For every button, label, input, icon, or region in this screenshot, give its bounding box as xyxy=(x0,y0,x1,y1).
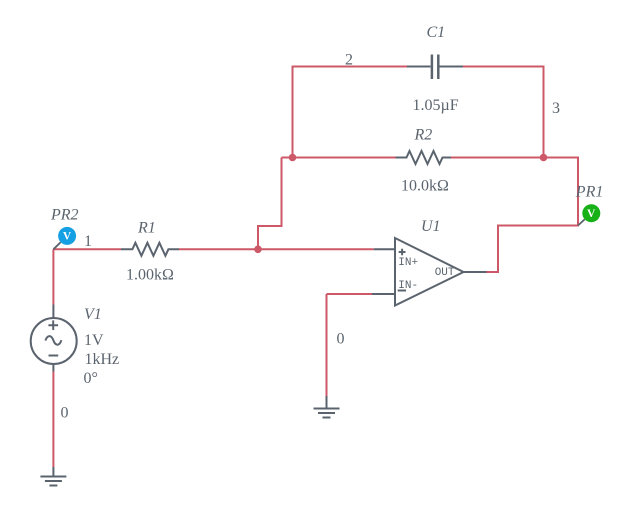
svg-text:R1: R1 xyxy=(137,220,156,237)
svg-text:OUT: OUT xyxy=(435,267,455,279)
svg-text:IN-: IN- xyxy=(398,280,418,292)
svg-text:1.05µF: 1.05µF xyxy=(413,97,459,114)
svg-text:R2: R2 xyxy=(414,127,433,144)
svg-text:1V: 1V xyxy=(84,332,104,349)
svg-text:V1: V1 xyxy=(84,306,102,323)
svg-text:1kHz: 1kHz xyxy=(85,351,120,368)
svg-text:2: 2 xyxy=(345,52,353,69)
svg-text:V: V xyxy=(587,208,596,220)
svg-text:PR1: PR1 xyxy=(575,184,604,201)
svg-text:10.0kΩ: 10.0kΩ xyxy=(401,178,449,195)
svg-text:0: 0 xyxy=(337,331,345,348)
svg-text:IN+: IN+ xyxy=(398,257,418,269)
svg-text:1.00kΩ: 1.00kΩ xyxy=(126,267,174,284)
svg-text:C1: C1 xyxy=(427,24,446,41)
svg-text:U1: U1 xyxy=(421,218,441,235)
svg-text:V: V xyxy=(63,231,72,243)
svg-text:3: 3 xyxy=(552,100,560,117)
svg-text:PR2: PR2 xyxy=(50,207,79,224)
svg-text:0°: 0° xyxy=(84,370,98,387)
svg-text:0: 0 xyxy=(61,405,69,422)
svg-text:1: 1 xyxy=(84,233,92,250)
